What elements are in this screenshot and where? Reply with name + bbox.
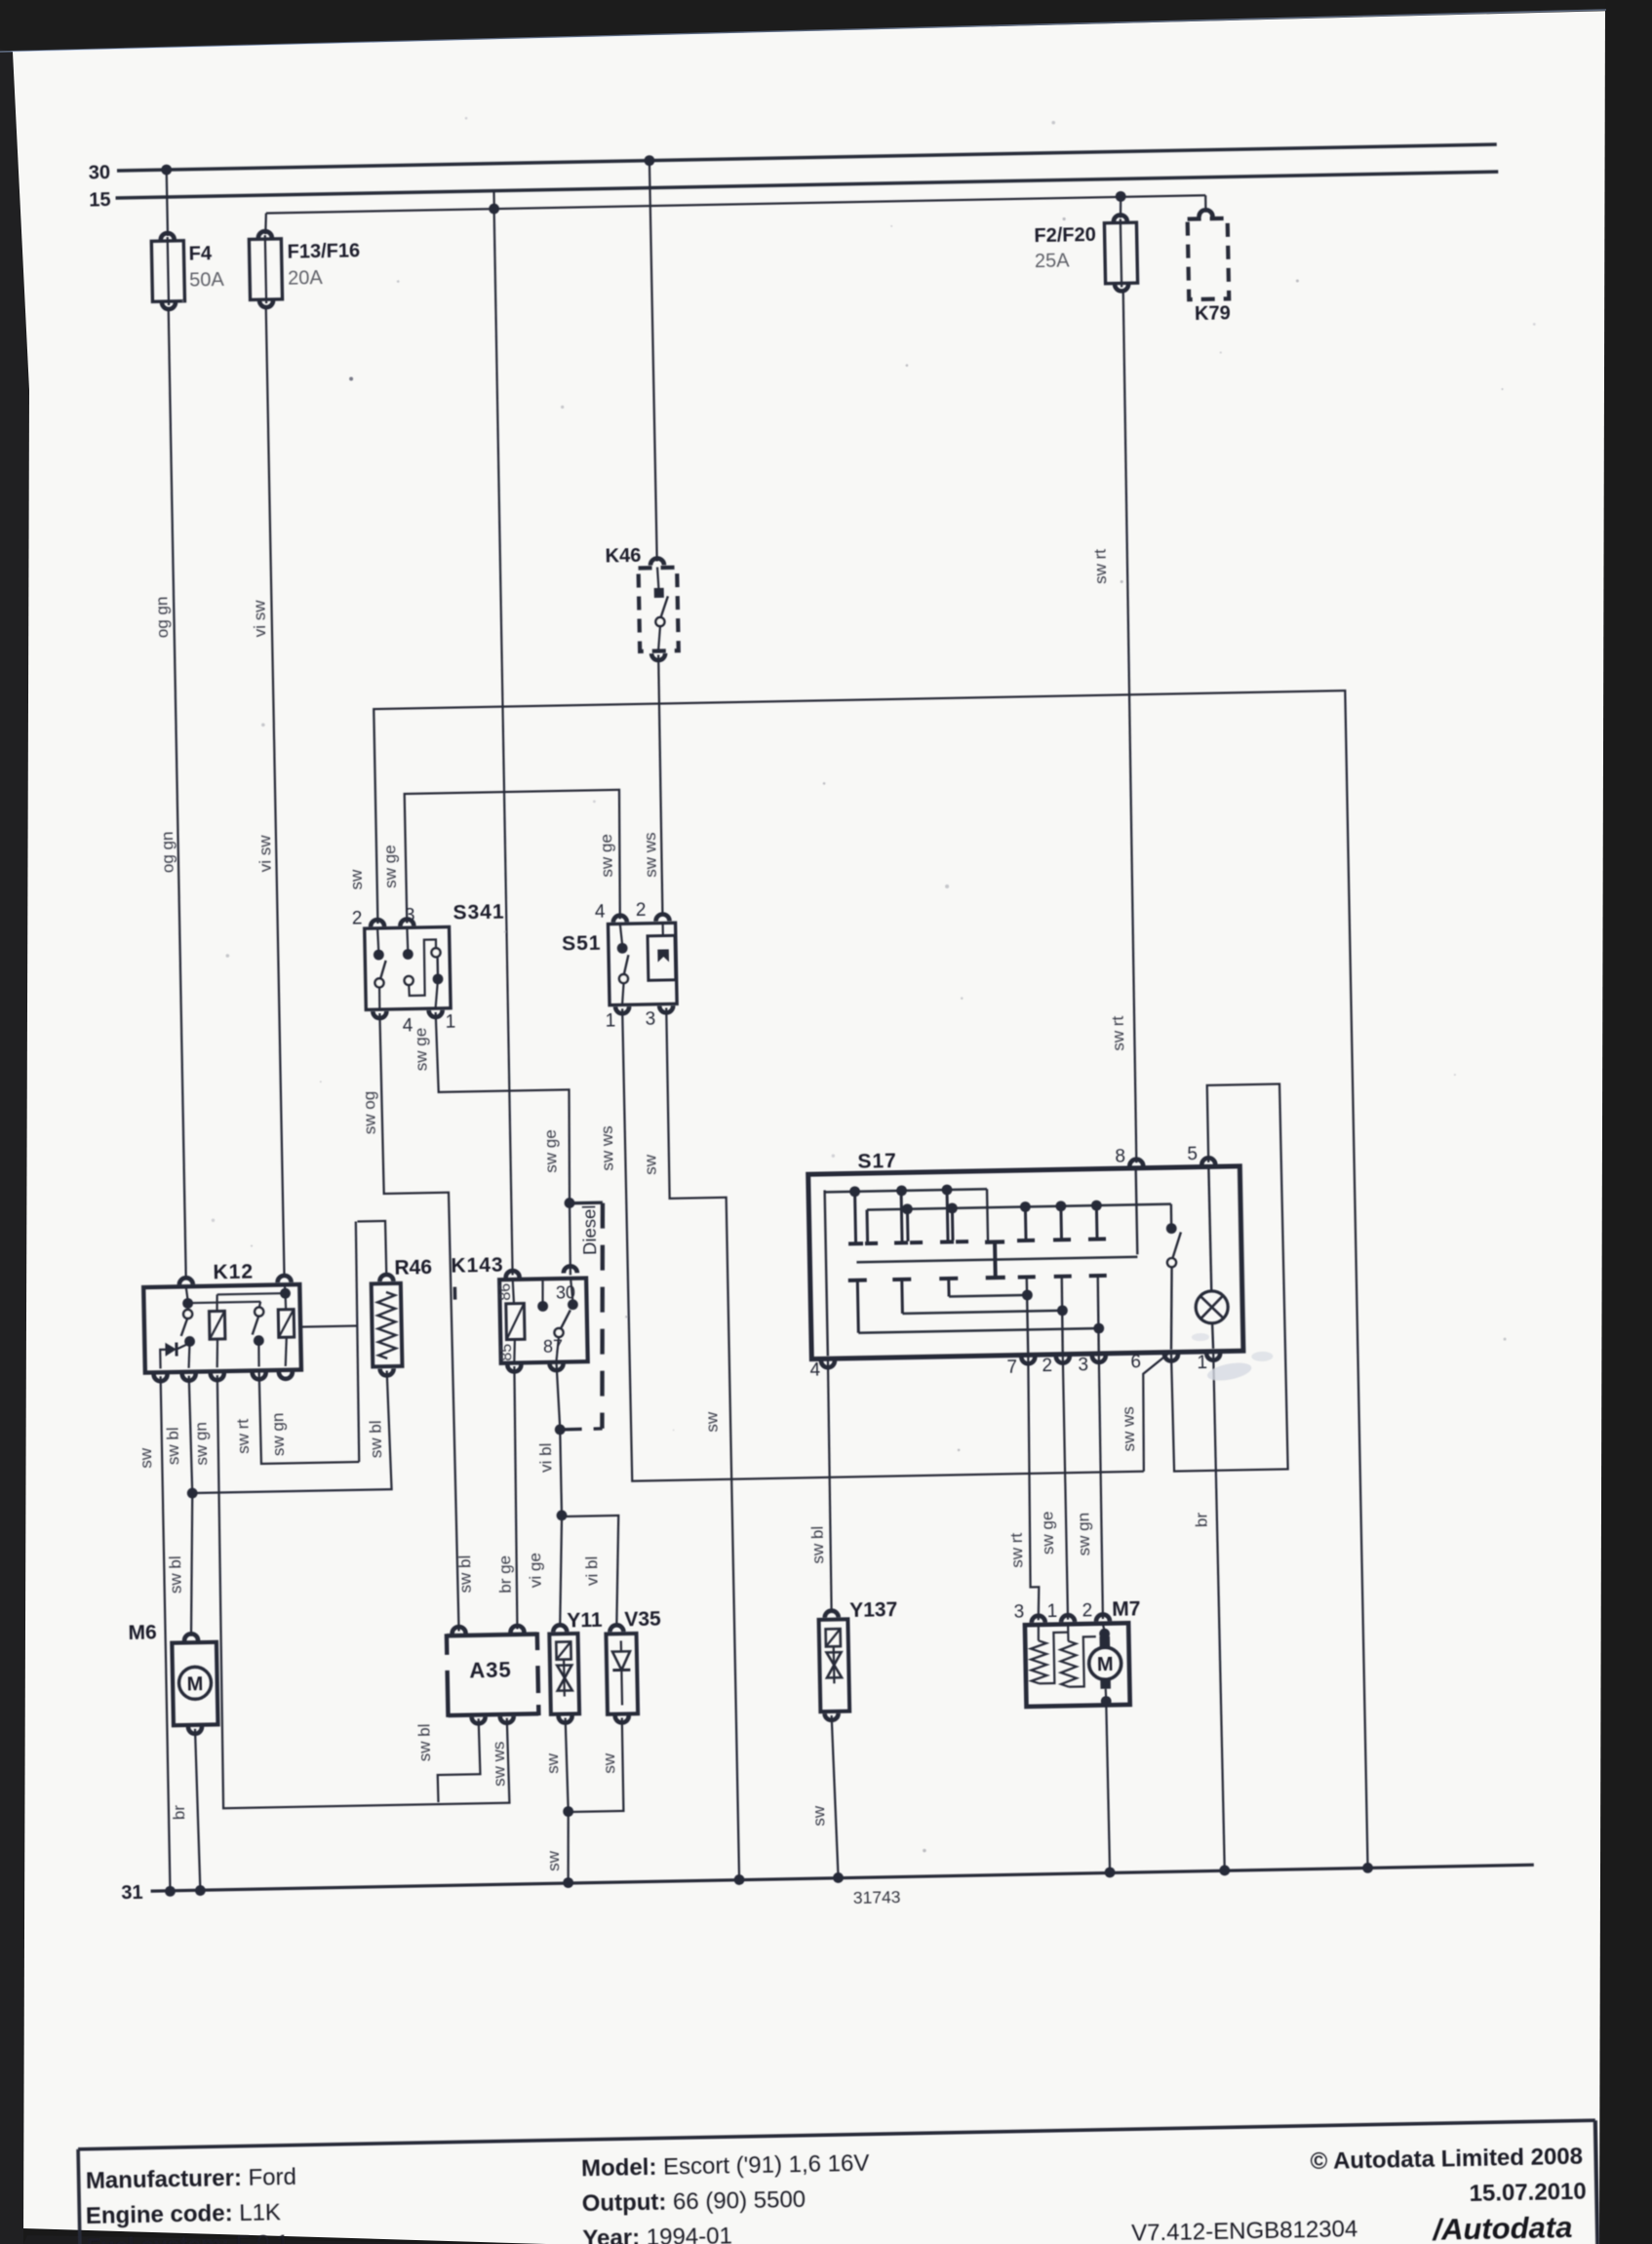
svg-text:M: M (186, 1673, 203, 1695)
svg-text:br: br (1192, 1512, 1210, 1527)
svg-text:sw gn: sw gn (191, 1422, 211, 1466)
svg-text:3: 3 (1078, 1355, 1088, 1375)
svg-text:6: 6 (1130, 1352, 1141, 1372)
svg-text:20A: 20A (288, 267, 324, 290)
svg-text:sw bl: sw bl (455, 1555, 475, 1594)
svg-text:sw: sw (543, 1752, 562, 1774)
svg-text:K12: K12 (213, 1261, 254, 1284)
svg-text:3: 3 (405, 905, 415, 925)
svg-text:sw bl: sw bl (414, 1723, 434, 1761)
svg-text:5: 5 (1187, 1144, 1198, 1164)
svg-text:sw: sw (137, 1447, 155, 1469)
svg-text:V7.412-ENGB812304: V7.412-ENGB812304 (1131, 2216, 1358, 2244)
svg-text:sw ge: sw ge (597, 834, 616, 878)
svg-text:Diesel: Diesel (578, 1204, 600, 1255)
svg-text:Output: 66 (90) 5500: Output: 66 (90) 5500 (581, 2186, 806, 2217)
svg-text:1: 1 (605, 1010, 615, 1031)
svg-text:S17: S17 (857, 1150, 897, 1173)
svg-text:S341: S341 (452, 901, 504, 925)
svg-text:sw ws: sw ws (490, 1741, 509, 1787)
svg-text:50A: 50A (189, 269, 225, 292)
svg-text:3: 3 (1014, 1602, 1025, 1623)
svg-text:sw gn: sw gn (1074, 1513, 1093, 1556)
svg-text:sw: sw (702, 1411, 721, 1433)
svg-text:sw ws: sw ws (641, 832, 660, 878)
svg-text:sw og: sw og (360, 1091, 379, 1135)
svg-text:F13/F16: F13/F16 (287, 240, 360, 262)
svg-text:sw ge: sw ge (1038, 1512, 1057, 1555)
svg-text:© Autodata Limited 2008: © Autodata Limited 2008 (1310, 2144, 1583, 2175)
svg-text:vi sw: vi sw (250, 600, 269, 638)
svg-text:og gn: og gn (158, 831, 177, 873)
svg-text:/Autodata: /Autodata (1431, 2210, 1573, 2244)
svg-text:1: 1 (1047, 1601, 1058, 1622)
svg-text:Model: Escort ('91) 1,6 16V: Model: Escort ('91) 1,6 16V (581, 2150, 870, 2183)
svg-text:86: 86 (497, 1283, 514, 1301)
svg-text:M6: M6 (128, 1621, 157, 1644)
svg-text:87: 87 (543, 1337, 563, 1357)
svg-text:sw rt: sw rt (1109, 1015, 1128, 1051)
svg-text:30: 30 (556, 1282, 575, 1302)
svg-text:sw rt: sw rt (233, 1418, 253, 1454)
svg-text:M: M (1097, 1654, 1114, 1675)
svg-text:vi bl: vi bl (582, 1556, 602, 1587)
svg-text:R46: R46 (394, 1256, 432, 1279)
svg-text:sw gn: sw gn (268, 1412, 288, 1456)
svg-text:1: 1 (1197, 1353, 1207, 1373)
svg-text:30: 30 (89, 162, 111, 183)
svg-text:sw rt: sw rt (1007, 1532, 1027, 1568)
svg-text:K79: K79 (1195, 302, 1231, 325)
svg-text:sw bl: sw bl (164, 1427, 183, 1465)
svg-text:S51: S51 (562, 932, 602, 956)
svg-text:sw: sw (641, 1154, 659, 1175)
svg-text:sw ws: sw ws (1119, 1406, 1138, 1452)
svg-text:sw rt: sw rt (1091, 549, 1111, 585)
svg-text:og gn: og gn (152, 596, 172, 638)
svg-text:sw ge: sw ge (412, 1028, 431, 1072)
svg-text:sw: sw (809, 1805, 828, 1827)
svg-text:25A: 25A (1035, 250, 1071, 272)
svg-text:K46: K46 (605, 545, 641, 568)
svg-text:vi bl: vi bl (536, 1442, 556, 1473)
svg-text:V35: V35 (624, 1608, 661, 1632)
svg-text:Year: 1994-01: Year: 1994-01 (582, 2223, 732, 2244)
svg-text:Manufacturer: Ford: Manufacturer: Ford (86, 2164, 297, 2194)
svg-text:7: 7 (1006, 1358, 1017, 1378)
svg-text:31: 31 (121, 1882, 143, 1904)
svg-text:sw: sw (544, 1850, 563, 1871)
svg-text:8: 8 (1115, 1147, 1125, 1167)
svg-text:Y137: Y137 (849, 1598, 897, 1622)
svg-text:vi ge: vi ge (526, 1553, 545, 1588)
svg-text:2: 2 (1042, 1356, 1052, 1376)
svg-text:sw: sw (600, 1752, 618, 1774)
svg-text:K143: K143 (451, 1254, 504, 1278)
svg-text:br: br (170, 1804, 188, 1820)
svg-text:15.07.2010: 15.07.2010 (1469, 2179, 1587, 2207)
svg-text:4: 4 (595, 902, 606, 923)
svg-text:vi sw: vi sw (256, 835, 275, 873)
svg-text:sw ws: sw ws (598, 1125, 617, 1171)
svg-text:2: 2 (1082, 1600, 1092, 1621)
svg-text:br ge: br ge (495, 1555, 515, 1594)
svg-text:sw ge: sw ge (541, 1129, 561, 1173)
svg-text:31743: 31743 (853, 1887, 901, 1908)
svg-text:sw ge: sw ge (380, 845, 400, 888)
svg-text:4: 4 (809, 1359, 820, 1380)
svg-text:2: 2 (636, 900, 647, 921)
svg-text:15: 15 (89, 189, 111, 211)
svg-text:85: 85 (498, 1344, 515, 1361)
svg-text:F4: F4 (188, 243, 213, 264)
svg-text:sw bl: sw bl (166, 1555, 185, 1594)
svg-text:Engine code: L1K: Engine code: L1K (86, 2199, 282, 2229)
svg-text:sw bl: sw bl (366, 1420, 385, 1458)
svg-text:1: 1 (445, 1012, 455, 1033)
svg-text:M7: M7 (1112, 1597, 1141, 1621)
svg-text:A35: A35 (469, 1658, 512, 1683)
svg-text:sw bl: sw bl (808, 1526, 828, 1564)
svg-text:2: 2 (352, 908, 363, 928)
svg-text:Y11: Y11 (567, 1609, 603, 1633)
svg-text:3: 3 (645, 1009, 655, 1030)
svg-text:F2/F20: F2/F20 (1034, 224, 1096, 247)
svg-text:sw: sw (347, 869, 366, 890)
